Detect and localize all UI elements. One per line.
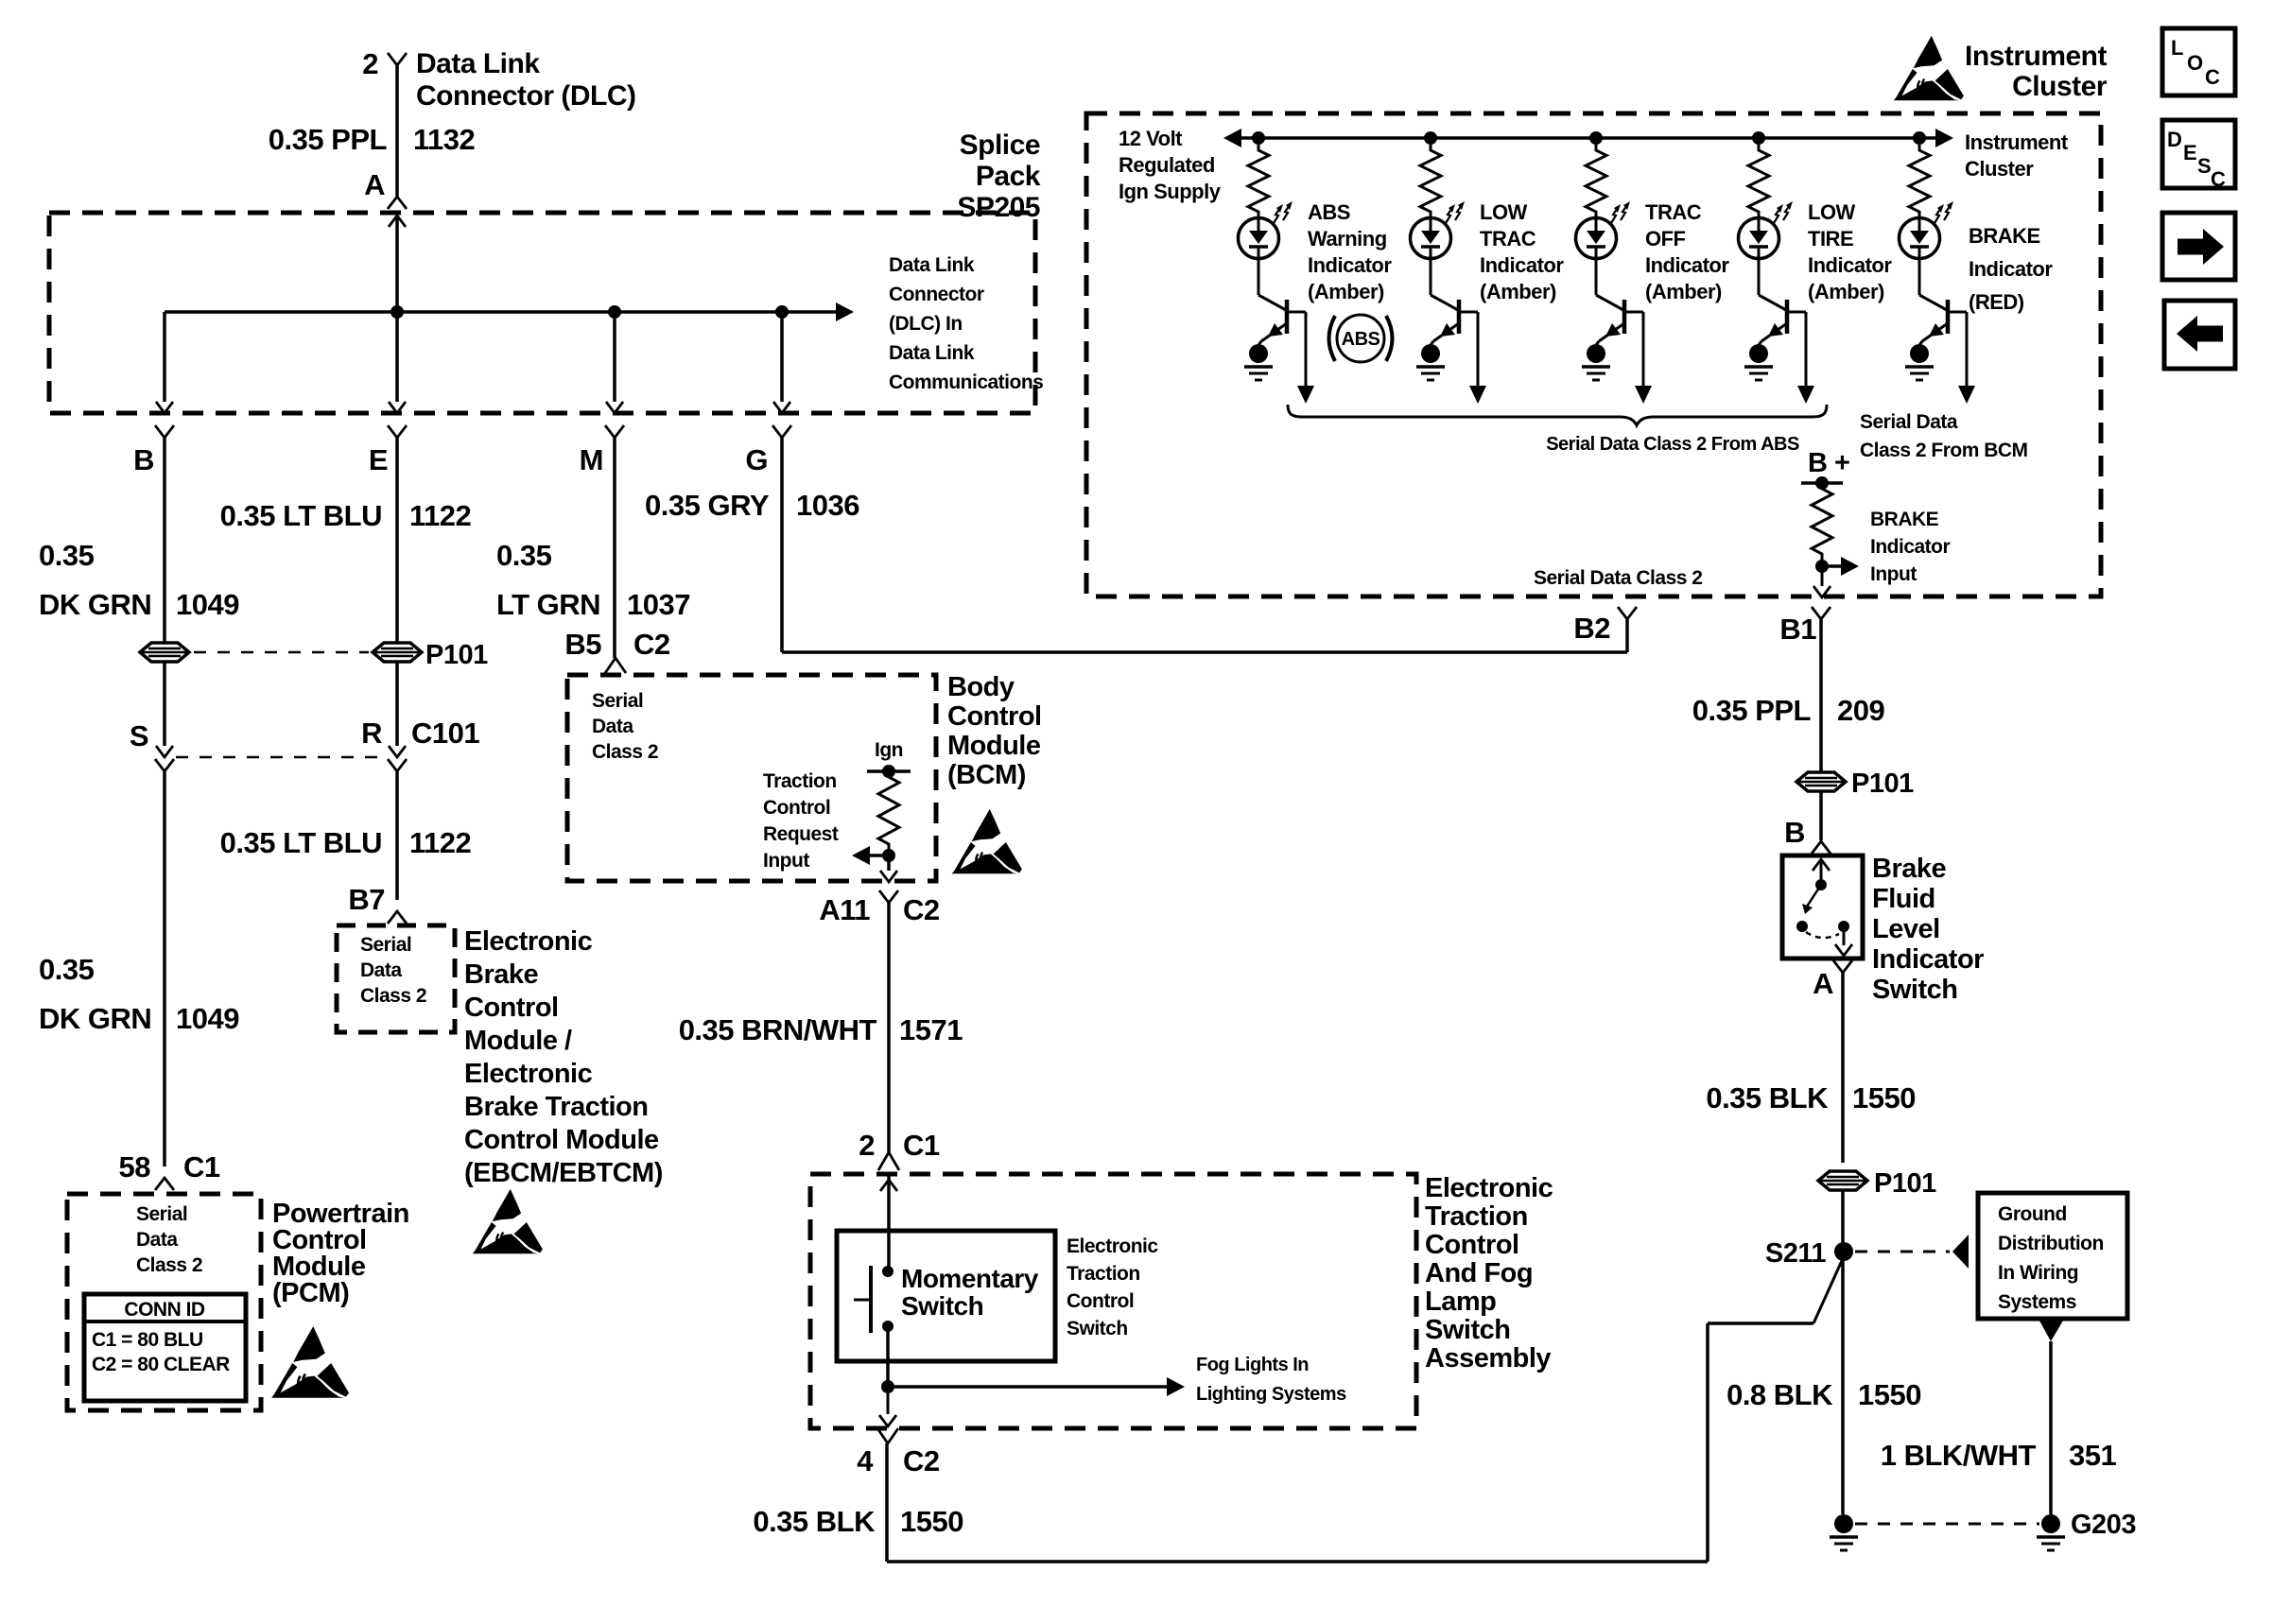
wire 1036 vertical segment [780,438,784,652]
svg-text:Indicator: Indicator [1645,253,1729,277]
light rays LOW TIRE [1774,208,1780,223]
svg-text:C2: C2 [903,1444,940,1477]
junction fog lamp output [881,1380,894,1393]
svg-text:2: 2 [362,47,378,80]
svg-text:(PCM): (PCM) [272,1278,349,1308]
svg-text:Switch: Switch [1067,1318,1128,1339]
nav box arrow left [2164,301,2235,369]
splice exit arrow at x=420 [389,402,406,413]
svg-text:Data Link: Data Link [416,48,540,79]
wire 1550 horizontal upper [1708,1322,1813,1325]
svg-text:A: A [1813,967,1833,1000]
emitter arrow ABS warning [1261,323,1287,341]
svg-text:SP205: SP205 [957,192,1040,223]
svg-text:LOW: LOW [1808,200,1856,224]
svg-text:B2: B2 [1573,612,1610,645]
svg-text:L: L [2171,36,2183,60]
svg-text:(EBCM/EBTCM): (EBCM/EBTCM) [464,1158,663,1188]
svg-text:Data Link: Data Link [889,342,975,364]
svg-text:1132: 1132 [413,123,475,156]
wire 1550 riser [1706,1323,1709,1562]
junction splice bus at G branch [775,305,789,319]
wire 1550 ETC down [885,1443,889,1562]
svg-text:Traction: Traction [1425,1201,1528,1232]
svg-text:C1: C1 [183,1150,220,1183]
junction supply bus TRAC OFF [1589,131,1603,145]
pass-through connector P101 right [373,643,422,662]
connector terminal B fork [155,425,174,438]
connector switch pin A fork [1833,960,1852,973]
ground distribution box [1978,1193,2127,1319]
arrow BCM output down [880,871,897,882]
dashed connector line P101 pair [194,651,369,654]
BCM dashed box [567,675,936,881]
resistor ABS warning indicator [1248,145,1269,217]
pass-through connector P101 left [140,643,189,662]
dashed reference line S211 [1855,1251,1950,1253]
svg-text:Class 2: Class 2 [360,985,426,1007]
junction supply bus BRAKE [1913,131,1926,145]
connector BCM pin A11 fork [879,890,898,903]
svg-text:S: S [130,719,148,752]
svg-text:1 BLK/WHT: 1 BLK/WHT [1881,1439,2037,1472]
resistor BRAKE indicator input [1812,483,1832,560]
svg-text:Indicator: Indicator [1308,253,1392,277]
svg-text:Traction: Traction [763,770,837,792]
svg-text:TIRE: TIRE [1808,227,1853,251]
svg-text:209: 209 [1837,694,1884,727]
connector ETC pin 2 fork [878,1152,899,1170]
svg-text:B7: B7 [348,883,385,916]
svg-text:Serial: Serial [360,934,411,956]
resistor LOW TIRE indicator [1748,145,1769,217]
splice S211 [1834,1242,1853,1261]
svg-text:Distribution: Distribution [1998,1233,2104,1254]
svg-text:Assembly: Assembly [1425,1343,1551,1373]
arrow brake indicator input [1829,564,1843,568]
svg-text:Indicator: Indicator [1969,257,2053,281]
svg-text:Electronic: Electronic [464,926,593,957]
connector C101 terminal R arrow [389,746,406,757]
svg-text:Pack: Pack [976,161,1041,192]
wire ETC internal bottom [886,1326,890,1387]
svg-text:Control Module: Control Module [464,1125,659,1155]
connector terminal E fork [388,425,407,438]
svg-text:1571: 1571 [899,1013,963,1046]
junction brake indicator input [1815,560,1829,573]
arrow reference to ground distribution [1952,1235,1969,1269]
wire 1132 from DLC pin 2 [395,64,399,197]
splice exit arrow at x=650 [606,402,623,413]
ground G203 right [2041,1514,2060,1533]
svg-text:O: O [2187,51,2203,75]
svg-text:Splice: Splice [960,130,1040,161]
dashed connector line C101 [176,756,385,759]
svg-text:0.35 BLK: 0.35 BLK [1706,1081,1829,1114]
svg-text:Body: Body [947,672,1015,702]
wire 209 B1 to P101 [1819,619,1823,772]
connector EBCM pin B7 fork [388,911,407,924]
arrow LOW TIRE output to serial data [1797,386,1814,404]
EBCM dashed box [337,925,455,1032]
svg-text:0.8 BLK: 0.8 BLK [1726,1378,1833,1411]
CONN ID table box [84,1294,246,1401]
svg-text:Connector (DLC): Connector (DLC) [416,80,635,112]
connector C101 terminal S fork [155,759,174,771]
wire ETC internal top [887,1174,891,1271]
svg-text:Fog Lights In: Fog Lights In [1196,1355,1309,1375]
svg-text:Warning: Warning [1308,227,1387,251]
svg-text:Input: Input [1870,563,1917,585]
svg-text:Control: Control [464,993,559,1023]
emitter arrow BRAKE [1922,323,1948,341]
icon arrow left [2197,326,2223,342]
svg-text:Level: Level [1872,914,1940,944]
svg-text:Traction: Traction [1067,1263,1140,1285]
wire 209 P101 to switch [1819,791,1823,840]
transistor LOW TIRE driver [1758,258,1761,295]
connector terminal M fork [605,425,624,438]
svg-text:P101: P101 [425,640,488,670]
splice exit arrow at x=827 [773,402,790,413]
svg-text:Instrument: Instrument [1965,130,2069,154]
svg-text:0.35: 0.35 [496,539,552,572]
light rays LOW TRAC [1446,208,1452,223]
wire 1122 segment E to P101 [395,438,399,643]
connector ETC pin 4 fork [877,1428,898,1443]
junction traction control request [882,849,895,862]
svg-text:B: B [1784,816,1805,849]
dashed ground tie line G203 [1855,1523,2039,1526]
resistor TRAC OFF indicator [1586,145,1606,217]
light rays ABS warning [1274,208,1280,223]
ESD symbol BCM [952,809,1022,873]
svg-text:Request: Request [763,823,839,845]
connector IC pin B1 fork [1812,607,1831,619]
wire splice branch E vertical [395,312,399,402]
arrow TRAC OFF output to serial data [1635,386,1652,404]
connector terminal A fork [388,197,407,209]
svg-text:E: E [369,443,388,476]
svg-text:4: 4 [857,1444,874,1477]
junction B+ [1815,476,1829,490]
svg-text:Regulated: Regulated [1119,153,1215,177]
switch momentary contacts [882,1266,894,1277]
svg-text:(Amber): (Amber) [1645,280,1722,303]
svg-text:Communications: Communications [889,371,1043,393]
svg-text:In Wiring: In Wiring [1998,1262,2078,1284]
svg-text:1036: 1036 [796,489,859,522]
arrow into ETC switch [880,1180,897,1191]
svg-text:Brake: Brake [464,959,538,990]
connector DLC pin 2 terminal [388,53,407,65]
wire 1571 BCM to ETC switch [887,903,891,1152]
svg-text:B: B [133,443,154,476]
svg-text:C2 = 80 CLEAR: C2 = 80 CLEAR [92,1354,230,1375]
wire 1049 segment C101 to PCM [163,771,166,1166]
svg-text:C101: C101 [411,717,479,750]
svg-text:1049: 1049 [176,588,239,621]
icon arrow right [2178,239,2203,255]
svg-text:(DLC) In: (DLC) In [889,313,963,335]
svg-text:Control: Control [1425,1230,1519,1260]
arrow supply bus right [1935,136,1937,140]
wire 1550 switch to P101 [1841,973,1845,1163]
wire 1550 P101 to ground [1841,1190,1845,1514]
svg-text:C: C [2205,65,2220,89]
svg-text:B +: B + [1808,448,1849,478]
symbol (ABS) telltale [1337,315,1384,362]
connector brake fluid switch pin B fork [1812,841,1831,854]
wire splice branch M vertical [613,312,616,402]
B+ supply bar [1801,481,1843,485]
svg-text:Connector: Connector [889,284,984,305]
LED ABS warning indicator lamp [1239,218,1279,259]
splice bus arrow to DLC In [836,310,838,314]
emitter arrow TRAC OFF [1599,323,1624,341]
svg-text:(Amber): (Amber) [1308,280,1384,303]
switch brake fluid level contacts [1813,859,1830,871]
svg-text:G: G [745,443,768,476]
wire 1037 segment M to BCM [613,438,616,658]
svg-text:Lamp: Lamp [1425,1287,1496,1317]
svg-text:Electronic: Electronic [1425,1173,1553,1203]
svg-text:1037: 1037 [627,588,690,621]
connector C101 terminal S arrow [156,746,173,757]
svg-text:Module: Module [947,731,1041,761]
wire 1550 diagonal to S211 [1813,1254,1845,1323]
light rays BRAKE [1935,208,1941,223]
wire 1036 horizontal to B2 [782,650,1627,654]
pass-through connector P101 (209) [1796,772,1846,791]
svg-text:DK GRN: DK GRN [39,1002,151,1035]
svg-text:Fluid: Fluid [1872,884,1935,914]
nav box arrow right [2162,213,2235,280]
resistor LOW TRAC indicator [1420,145,1441,217]
svg-text:C2: C2 [903,893,940,926]
splice pack SP205 dashed box [49,213,1035,413]
wire splice branch B vertical [163,312,166,402]
resistor BRAKE indicator [1909,145,1930,217]
ground BRAKE emitter [1910,344,1929,363]
wire 351 to ground G203 [2049,1341,2053,1514]
svg-text:And Fog: And Fog [1425,1258,1533,1288]
svg-text:Class 2: Class 2 [592,741,658,763]
svg-text:Switch: Switch [901,1291,983,1321]
splice exit arrow at x=174 [156,402,173,413]
svg-text:Control: Control [1067,1290,1134,1312]
ground G203 left [1834,1514,1853,1533]
svg-text:Lighting Systems: Lighting Systems [1196,1384,1346,1405]
svg-text:2: 2 [859,1129,875,1162]
svg-text:Electronic: Electronic [1067,1235,1158,1257]
connector PCM pin 58 fork [155,1178,174,1190]
svg-text:A: A [364,168,385,201]
svg-text:Cluster: Cluster [2012,71,2108,102]
momentary switch box [837,1231,1055,1361]
svg-text:Module /: Module / [464,1026,572,1056]
svg-text:Ground: Ground [1998,1203,2067,1225]
CONN ID table header line [84,1320,246,1323]
svg-text:ABS: ABS [1308,200,1350,224]
svg-text:1122: 1122 [409,826,471,859]
svg-text:Control: Control [947,701,1042,732]
arrow to fog lights [894,1385,1169,1389]
arrow ground distribution output [2039,1321,2063,1341]
LED BRAKE indicator lamp [1900,218,1940,259]
transistor LOW TRAC driver [1430,258,1432,295]
transistor ABS warning driver [1258,258,1260,295]
brace serial data class 2 from ABS [1288,405,1827,425]
svg-text:E: E [2183,141,2196,164]
svg-text:Serial: Serial [136,1203,187,1225]
wire resistor to BCM edge [887,850,891,871]
svg-text:(Amber): (Amber) [1808,280,1884,303]
svg-text:S211: S211 [1765,1238,1826,1269]
svg-text:Indicator: Indicator [1808,253,1892,277]
emitter arrow LOW TRAC [1433,323,1459,341]
splice bus horizontal wire [165,310,836,314]
junction supply bus LOW TRAC [1424,131,1437,145]
svg-text:Serial Data Class 2 From ABS: Serial Data Class 2 From ABS [1546,434,1799,455]
LED LOW TIRE indicator lamp [1739,218,1779,259]
Ign supply bar in BCM [867,769,911,773]
svg-text:(RED): (RED) [1969,290,2024,314]
svg-text:ABS: ABS [1342,329,1380,350]
nav box LOC [2162,28,2235,95]
arrow BRAKE output to serial data [1958,386,1975,404]
junction Ign bar [882,765,895,778]
svg-text:0.35 PPL: 0.35 PPL [1692,694,1811,727]
wire 1049 segment P101 to C101 [163,662,166,746]
resistor BCM traction control request pull-up [878,771,899,850]
light rays TRAC OFF [1611,208,1618,223]
svg-text:1550: 1550 [1858,1378,1921,1411]
svg-text:Control: Control [763,797,830,819]
svg-text:(Amber): (Amber) [1480,280,1556,303]
svg-text:A11: A11 [819,893,870,926]
svg-text:CONN ID: CONN ID [124,1299,205,1321]
svg-text:0.35: 0.35 [39,539,95,572]
PCM dashed box [67,1194,261,1410]
svg-text:Momentary: Momentary [901,1264,1039,1293]
svg-text:TRAC: TRAC [1480,227,1536,251]
svg-text:LT GRN: LT GRN [496,588,600,621]
ESD symbol EBCM [473,1189,543,1253]
svg-text:Cluster: Cluster [1965,157,2034,181]
connector BCM pin B5 fork [605,658,626,673]
svg-text:1550: 1550 [900,1505,963,1538]
wire 1122 segment C101 to EBCM [395,771,399,900]
LED LOW TRAC indicator lamp [1411,218,1451,259]
connector IC pin B2 fork [1618,607,1637,619]
svg-text:B5: B5 [564,628,601,661]
svg-text:P101: P101 [1874,1168,1936,1199]
svg-text:0.35 LT BLU: 0.35 LT BLU [220,499,382,532]
svg-text:DK GRN: DK GRN [39,588,151,621]
svg-text:0.35 BLK: 0.35 BLK [753,1505,876,1538]
svg-text:Electronic: Electronic [464,1059,593,1089]
electronic traction control and fog lamp switch assembly dashed box [810,1174,1416,1428]
svg-text:C2: C2 [633,628,670,661]
svg-text:Data: Data [136,1229,178,1251]
svg-text:351: 351 [2069,1439,2116,1472]
svg-text:D: D [2167,128,2181,151]
svg-text:R: R [361,717,382,750]
svg-text:Ign Supply: Ign Supply [1119,180,1222,203]
wire 1122 segment P101 to C101 [395,662,399,746]
junction splice bus at A [390,305,404,319]
svg-text:Switch: Switch [1425,1315,1510,1345]
svg-text:12 Volt: 12 Volt [1119,127,1183,150]
svg-text:Input: Input [763,850,809,872]
svg-text:Ign: Ign [875,739,903,761]
svg-text:0.35: 0.35 [39,953,95,986]
svg-text:BRAKE: BRAKE [1870,509,1939,530]
svg-text:Indicator: Indicator [1872,944,1984,975]
svg-text:TRAC: TRAC [1645,200,1702,224]
svg-text:0.35 LT BLU: 0.35 LT BLU [220,826,382,859]
svg-text:0.35 BRN/WHT: 0.35 BRN/WHT [679,1013,877,1046]
LED TRAC OFF indicator lamp [1576,218,1617,259]
svg-text:C1 = 80 BLU: C1 = 80 BLU [92,1329,203,1351]
svg-text:P101: P101 [1851,769,1914,799]
ground ABS warning emitter [1249,344,1268,363]
svg-text:Data Link: Data Link [889,254,975,276]
ESD symbol PCM [271,1326,349,1398]
svg-text:Class 2 From BCM: Class 2 From BCM [1860,440,2028,461]
connector C101 terminal R fork [388,759,407,771]
wire 1036 riser to B2 [1625,619,1629,652]
nav box DESC [2162,120,2235,188]
transistor BRAKE driver [1918,258,1921,295]
arrow traction control request output [868,854,882,857]
wire splice branch G vertical [780,312,784,402]
transistor TRAC OFF driver [1595,258,1598,295]
svg-text:0.35 PPL: 0.35 PPL [269,123,387,156]
svg-text:Brake Traction: Brake Traction [464,1092,648,1122]
ground LOW TIRE emitter [1749,344,1768,363]
svg-text:Data: Data [592,716,633,737]
pass-through connector P101 (1550) [1818,1171,1867,1190]
arrow ETC output down [879,1415,896,1426]
svg-text:Instrument: Instrument [1965,41,2108,72]
wire terminal A into splice bus [395,216,399,312]
svg-text:G203: G203 [2071,1510,2136,1540]
svg-text:LOW: LOW [1480,200,1528,224]
svg-text:(BCM): (BCM) [947,760,1026,790]
ESD symbol instrument cluster [1894,36,1964,100]
svg-text:Serial Data Class 2: Serial Data Class 2 [1534,567,1702,589]
svg-text:Class 2: Class 2 [136,1254,202,1276]
arrow 12V supply left [1240,136,1242,140]
svg-text:BRAKE: BRAKE [1969,224,2040,248]
junction supply bus LOW TIRE [1752,131,1765,145]
svg-text:1049: 1049 [176,1002,239,1035]
svg-text:Indicator: Indicator [1870,536,1951,558]
instrument cluster supply bus [1242,136,1935,140]
svg-text:Serial Data: Serial Data [1860,411,1958,433]
svg-text:Data: Data [360,959,402,981]
svg-text:S: S [2197,154,2211,178]
svg-text:M: M [580,443,603,476]
svg-text:Systems: Systems [1998,1291,2076,1313]
svg-text:58: 58 [119,1150,151,1183]
arrow LOW TRAC output to serial data [1469,386,1486,404]
svg-text:1122: 1122 [409,499,471,532]
arrow B1 output down [1813,586,1831,597]
emitter arrow LOW TIRE [1761,323,1787,341]
